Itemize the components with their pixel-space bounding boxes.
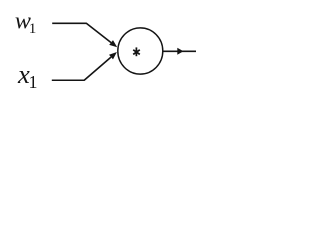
svg-text:1: 1 — [29, 72, 38, 92]
label w1 — [15, 8, 36, 37]
arrowhead x1 — [109, 52, 117, 59]
arrowhead w1 — [109, 40, 117, 47]
svg-text:1: 1 — [29, 20, 37, 37]
asterisk * inside node — [133, 47, 140, 56]
output arrowhead — [177, 48, 183, 55]
label x1 — [17, 59, 38, 92]
node circle (multiply gate) — [118, 28, 163, 74]
output wire — [163, 50, 196, 52]
wire w1 input (horizontal then diagonal into node) — [52, 23, 111, 42]
wire x1 input (horizontal then diagonal into node) — [52, 57, 111, 80]
